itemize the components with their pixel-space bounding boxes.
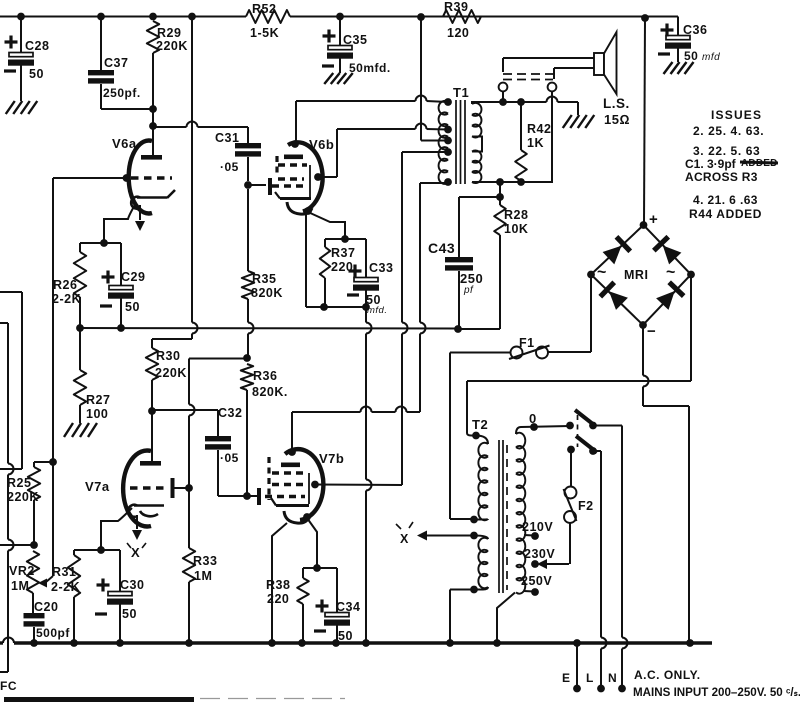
node rail-C37 <box>97 13 105 21</box>
svg-text:C36: C36 <box>683 23 707 37</box>
svg-text:·05: ·05 <box>220 160 239 174</box>
node V6a cathode junction <box>100 239 108 247</box>
svg-text:·05: ·05 <box>220 451 239 465</box>
capacitor C34 <box>317 567 337 569</box>
wire R28 top <box>499 182 501 205</box>
svg-text:C43: C43 <box>428 240 455 256</box>
svg-text:50: 50 <box>338 629 353 643</box>
svg-text:F1: F1 <box>519 336 535 350</box>
svg-text:50: 50 <box>122 607 137 621</box>
node rail-T2 sec <box>493 639 501 647</box>
tube V7b anode wire <box>291 412 293 451</box>
svg-text:pf: pf <box>463 285 474 296</box>
wire HT to T1 centre tap <box>420 17 422 141</box>
node C31-R35-V6b grid <box>244 181 252 189</box>
node rail-HT <box>417 13 425 21</box>
svg-text:50: 50 <box>684 49 698 63</box>
svg-text:~: ~ <box>597 264 607 281</box>
node C29-bus <box>117 324 125 332</box>
svg-text:820K: 820K <box>251 286 283 300</box>
svg-text:V6a: V6a <box>112 136 137 151</box>
node rail-MR1 <box>641 14 649 22</box>
wire MR1 right AC to T2 <box>690 275 692 382</box>
node V7b cathode <box>303 513 311 521</box>
svg-text:F2: F2 <box>578 499 594 513</box>
svg-text:R25: R25 <box>7 476 31 490</box>
terminal N <box>618 685 626 693</box>
node sec bottom R28 <box>496 178 504 186</box>
svg-text:MRI: MRI <box>624 268 648 282</box>
wire V6b anode to T1 primary top <box>296 100 416 102</box>
svg-text:R26: R26 <box>53 278 77 292</box>
node T2 primary mid-lower <box>470 516 478 524</box>
tube V7b grid dashes <box>272 471 305 474</box>
tube V7a heater arrow <box>136 515 138 529</box>
tube V6b grid entry <box>268 178 272 195</box>
capacitor C28 <box>20 17 22 53</box>
wire T1 secondary bottom <box>472 91 552 182</box>
wire MR1 left to F1 <box>590 275 592 353</box>
svg-text:−: − <box>647 323 656 340</box>
svg-text:E: E <box>562 671 571 685</box>
node V7a grid <box>185 484 193 492</box>
node rail-x192 <box>188 13 196 21</box>
switch S1 lower pole <box>567 446 575 454</box>
svg-text:1M: 1M <box>11 579 29 593</box>
wire V6b screen to T1 tap <box>337 128 416 130</box>
svg-text:VR2: VR2 <box>9 564 35 578</box>
diode MR1 lower-right <box>656 291 675 310</box>
tube V6b beam plate <box>275 156 278 173</box>
node grid-R25-wiper <box>49 458 57 466</box>
node T1 screen tap lower <box>444 148 452 156</box>
terminal E <box>576 643 578 686</box>
ground C28 <box>6 101 15 114</box>
svg-text:R36: R36 <box>253 369 277 383</box>
switch S1 upper pole <box>566 422 574 430</box>
switch link <box>577 415 579 447</box>
node R37-C33 top <box>341 235 349 243</box>
capacitor C43 <box>458 197 460 257</box>
svg-text:50: 50 <box>125 300 140 314</box>
wire V7b screen to T1 tap <box>402 151 448 153</box>
resistor R27 <box>79 328 81 370</box>
wire C33 return to chassis <box>365 307 367 323</box>
svg-text:X: X <box>400 532 409 546</box>
node V7a cathode junction <box>97 546 105 554</box>
svg-text:C34: C34 <box>336 600 360 614</box>
wire V6b cathode to R37/C33 <box>308 212 345 237</box>
wire R36 top to V7a grid line <box>189 358 247 360</box>
svg-text:~: ~ <box>666 264 676 281</box>
svg-text:R35: R35 <box>252 272 276 286</box>
node R37 bottom <box>320 303 328 311</box>
tube V7b screen tap <box>311 481 319 489</box>
svg-text:R28: R28 <box>504 208 528 222</box>
svg-text:C32: C32 <box>218 406 242 420</box>
svg-text:3. 22. 5. 63: 3. 22. 5. 63 <box>693 144 760 158</box>
node MR1 + <box>640 221 648 229</box>
resistor R36 <box>241 364 253 390</box>
svg-text:R27: R27 <box>86 393 110 407</box>
tube V6a cathode lead <box>104 203 136 240</box>
svg-text:C33: C33 <box>369 261 393 275</box>
svg-text:220K: 220K <box>156 39 188 53</box>
tube V7b cathode <box>284 511 309 523</box>
svg-text:L: L <box>586 671 594 685</box>
wire V7b beam lead to chassis <box>272 523 287 643</box>
node C33 bottom <box>362 303 370 311</box>
node T1 screen tap upper <box>444 126 452 134</box>
svg-text:C37: C37 <box>104 56 128 70</box>
svg-text:T1: T1 <box>453 85 469 100</box>
wire cathode to R31/C30 <box>74 549 101 551</box>
resistor R31 <box>73 550 75 555</box>
fuse F2 <box>570 450 572 487</box>
resistor R33 <box>183 548 195 582</box>
capacitor C31 <box>235 143 261 148</box>
node rail-C34 <box>332 639 340 647</box>
node R30-V7a anode-C32 <box>148 407 156 415</box>
wire switch to L <box>593 450 601 452</box>
tube V6b screen dashes <box>278 163 307 166</box>
svg-text:C29: C29 <box>121 270 145 284</box>
svg-text:R37: R37 <box>331 246 355 260</box>
wire V7b anode to T1 <box>420 182 448 184</box>
transformer T1 core <box>455 100 457 184</box>
node C32-R36-V7b grid <box>243 492 251 500</box>
node rail-C35 <box>336 13 344 21</box>
svg-text:220K: 220K <box>155 366 187 380</box>
node bus-C43-R28 <box>454 325 462 333</box>
tube V7a envelope <box>123 450 151 526</box>
wire HT+ top rail <box>0 16 246 18</box>
svg-text:T2: T2 <box>472 417 488 432</box>
svg-text:50mfd.: 50mfd. <box>349 61 391 75</box>
svg-text:R29: R29 <box>157 26 181 40</box>
capacitor C36 <box>677 17 679 36</box>
svg-text:210V: 210V <box>522 520 553 534</box>
resistor R29 <box>147 21 159 53</box>
svg-text:230V: 230V <box>524 547 555 561</box>
tube V6a grid wire <box>53 177 129 179</box>
wire cathode to R26/C29 <box>80 242 121 244</box>
wire V6a anode to C31 <box>154 126 187 128</box>
node secondary-speaker term <box>499 98 507 106</box>
wire left stub to LFC <box>0 671 8 673</box>
svg-text:2-2K: 2-2K <box>51 580 80 594</box>
svg-text:120: 120 <box>447 26 469 40</box>
node T2 250V tap <box>524 590 534 593</box>
resistor R38 <box>303 567 317 569</box>
tube V7a cathode lead <box>101 508 132 547</box>
ground C35 <box>324 73 333 84</box>
capacitor C29 <box>120 243 122 285</box>
wire T1 secondary top (earthy side) <box>472 102 547 104</box>
wire chassis bottom rail <box>0 641 3 644</box>
wire cathode bus <box>78 327 458 330</box>
node T1 primary bottom <box>444 178 452 186</box>
svg-text:C30: C30 <box>120 578 144 592</box>
node R29-C37 <box>149 105 157 113</box>
node T1 primary top <box>444 98 452 106</box>
wire X' heater arrow <box>427 535 474 537</box>
resistor R37 <box>325 238 345 240</box>
wire rail to MR1 + <box>644 18 645 224</box>
wire VR2 top from left <box>0 544 34 546</box>
node rail-R31 <box>70 639 78 647</box>
svg-text:1K: 1K <box>527 136 544 150</box>
svg-text:220K: 220K <box>7 490 39 504</box>
svg-text:10K: 10K <box>504 222 528 236</box>
node rail-V7b beam <box>268 639 276 647</box>
speaker cable <box>502 58 504 72</box>
svg-text:A.C. ONLY.: A.C. ONLY. <box>634 668 701 682</box>
diode MR1 lower-left <box>609 291 628 310</box>
wire F1 to T2 tap <box>450 352 511 354</box>
wire cathode network bottom <box>306 306 366 308</box>
tube V6a envelope <box>129 141 152 214</box>
diode MR1 upper-left <box>603 246 622 265</box>
svg-text:FC: FC <box>0 679 17 693</box>
tube V7a anode <box>151 411 153 461</box>
svg-text:R38: R38 <box>266 578 290 592</box>
svg-text:2. 25. 4. 63.: 2. 25. 4. 63. <box>693 124 764 138</box>
node R35-R36 <box>243 354 251 362</box>
node rail-C33 <box>362 639 370 647</box>
transformer T2 core <box>498 440 500 593</box>
resistor R42 <box>520 102 522 150</box>
svg-text:820K.: 820K. <box>252 385 288 399</box>
svg-text:R30: R30 <box>156 349 180 363</box>
speaker terminals <box>499 83 508 92</box>
wire V7a anode to C32 <box>152 409 218 411</box>
node R28-C43 <box>496 193 504 201</box>
transformer T2 primary lower <box>474 536 488 540</box>
wire HT to R30/V7a <box>191 17 193 323</box>
node rail-C30 <box>116 639 124 647</box>
node MR1 left <box>587 271 595 279</box>
capacitor C33 <box>345 238 366 240</box>
svg-text:1M: 1M <box>194 569 212 583</box>
wire T2 primary bottom to chassis <box>450 589 474 591</box>
transformer T1 primary <box>439 101 448 184</box>
svg-text:500pf: 500pf <box>36 626 70 640</box>
svg-text:50: 50 <box>29 67 44 81</box>
resistor R39 <box>443 10 481 23</box>
svg-text:4. 21. 6 .63: 4. 21. 6 .63 <box>693 193 758 207</box>
capacitor C30 <box>119 550 121 591</box>
rectifier MR1 diamond <box>591 225 691 325</box>
node rail-E <box>573 639 581 647</box>
svg-text:1-5K: 1-5K <box>250 26 279 40</box>
node T2 210V tap <box>524 534 534 537</box>
node rail-R38 <box>298 639 306 647</box>
node rail-R33 <box>185 639 193 647</box>
resistor R35 <box>247 189 249 271</box>
tube V6b screen tap <box>314 173 322 181</box>
svg-text:250pf.: 250pf. <box>103 86 141 100</box>
ground R27 <box>64 423 73 437</box>
svg-text:C28: C28 <box>25 39 49 53</box>
capacitor C35 <box>339 17 341 46</box>
node V6b cathode <box>304 207 312 215</box>
tube V6a anode <box>152 126 154 155</box>
terminal L <box>597 685 605 693</box>
tube V7b beam plate <box>267 457 270 500</box>
svg-text:R31: R31 <box>52 565 76 579</box>
tube V7b grid entry <box>257 488 261 505</box>
node T2 O tap <box>530 423 538 431</box>
svg-text:ISSUES: ISSUES <box>711 108 762 122</box>
tube V7b envelope <box>285 449 323 520</box>
resistor R28 <box>494 205 506 235</box>
svg-text:C20: C20 <box>34 600 58 614</box>
svg-text:100: 100 <box>86 407 108 421</box>
ground speaker <box>563 115 572 128</box>
wire V6a grid down-lead <box>52 178 54 462</box>
wire MR1 - to bottom rail <box>642 325 644 376</box>
svg-text:V7b: V7b <box>319 451 344 466</box>
loudspeaker LS <box>594 53 604 75</box>
capacitor C37 <box>100 17 102 71</box>
node rail-C28 <box>17 13 25 21</box>
node T1 centre tap <box>444 137 452 145</box>
svg-text:2-2K: 2-2K <box>52 292 81 306</box>
node rail-C20 <box>30 639 38 647</box>
node rail-MR1- <box>686 639 694 647</box>
node T2 primary top <box>472 432 480 440</box>
svg-text:250: 250 <box>460 271 483 286</box>
svg-text:MAINS INPUT 200–250V. 50 ᶜ/ₛ.: MAINS INPUT 200–250V. 50 ᶜ/ₛ. <box>633 686 800 699</box>
resistor R26 <box>79 243 81 252</box>
node MR1 - <box>639 321 647 329</box>
svg-text:R44 ADDED: R44 ADDED <box>689 207 762 221</box>
wire V6b suppressor lead <box>305 214 307 307</box>
svg-text:N: N <box>608 671 617 685</box>
resistor R52 <box>246 10 290 23</box>
potentiometer VR2 <box>27 551 39 593</box>
resistor R25 <box>34 461 53 463</box>
node T2 X-tap <box>470 532 478 540</box>
node rail-T2 prim <box>446 639 454 647</box>
tube V6b cathode <box>287 202 312 214</box>
wire left input stub B <box>0 322 8 324</box>
fuse F1 <box>548 351 591 353</box>
node rail-R29 <box>149 13 157 21</box>
transformer T1 secondary <box>472 103 481 138</box>
node T2 230V tap <box>531 560 539 568</box>
node T2 primary bottom <box>470 586 478 594</box>
svg-text:ACROSS R3: ACROSS R3 <box>685 170 758 184</box>
wire T2 secondary bottom to chassis <box>497 593 515 644</box>
tube V6b envelope <box>288 142 323 211</box>
node V6a anode <box>149 122 157 130</box>
svg-text:220: 220 <box>267 592 289 606</box>
svg-text:mfd.: mfd. <box>367 305 387 316</box>
wire switch to N <box>593 425 622 427</box>
node MR1 right <box>687 271 695 279</box>
svg-text:250V: 250V <box>521 574 552 588</box>
tube V7a grid <box>130 486 168 489</box>
svg-text:R39: R39 <box>444 0 468 14</box>
tube V6b anode wire <box>295 101 297 143</box>
transformer T2 secondary <box>516 426 570 434</box>
wire R35/R36 node to V7a grid and R33 <box>188 359 190 405</box>
svg-text:+: + <box>649 211 658 228</box>
svg-text:R52: R52 <box>252 2 276 16</box>
node secondary-R42 top <box>517 98 525 106</box>
wire T2 primary top lead <box>466 381 468 433</box>
svg-text:C1. 3·9pf: C1. 3·9pf <box>685 157 737 171</box>
diode MR1 upper-right <box>663 246 682 265</box>
node R25-VR2 <box>30 541 38 549</box>
node R38-C34 top <box>313 564 321 572</box>
capacitor C20 <box>24 613 45 618</box>
svg-text:L.S.: L.S. <box>603 96 630 111</box>
transformer T2 primary upper <box>476 436 488 445</box>
wire V7b cathode lead <box>307 518 317 566</box>
svg-text:C35: C35 <box>343 33 367 47</box>
svg-text:X: X <box>131 545 140 560</box>
note LFC section edge <box>4 697 194 702</box>
wire left input stub A <box>0 291 22 293</box>
svg-text:R42: R42 <box>527 122 551 136</box>
resistor R30 <box>146 348 158 380</box>
ground C36 <box>664 62 673 74</box>
svg-text:V7a: V7a <box>85 479 110 494</box>
wire F2 to 230V tap <box>569 523 571 564</box>
svg-text:C31: C31 <box>215 131 239 145</box>
tube V6a heater arrow <box>139 205 141 220</box>
svg-text:15Ω: 15Ω <box>604 112 630 127</box>
svg-text:mfd: mfd <box>702 52 720 63</box>
capacitor C32 <box>205 436 231 441</box>
svg-text:V6b: V6b <box>309 137 334 152</box>
tube V7a cathode <box>134 504 164 507</box>
wire VR2 wiper <box>52 462 54 576</box>
node R26-bus <box>76 324 84 332</box>
svg-text:R33: R33 <box>193 554 217 568</box>
node sec bottom R42 <box>517 178 525 186</box>
svg-text:0: 0 <box>529 411 537 426</box>
tube V6a cathode <box>137 190 175 198</box>
